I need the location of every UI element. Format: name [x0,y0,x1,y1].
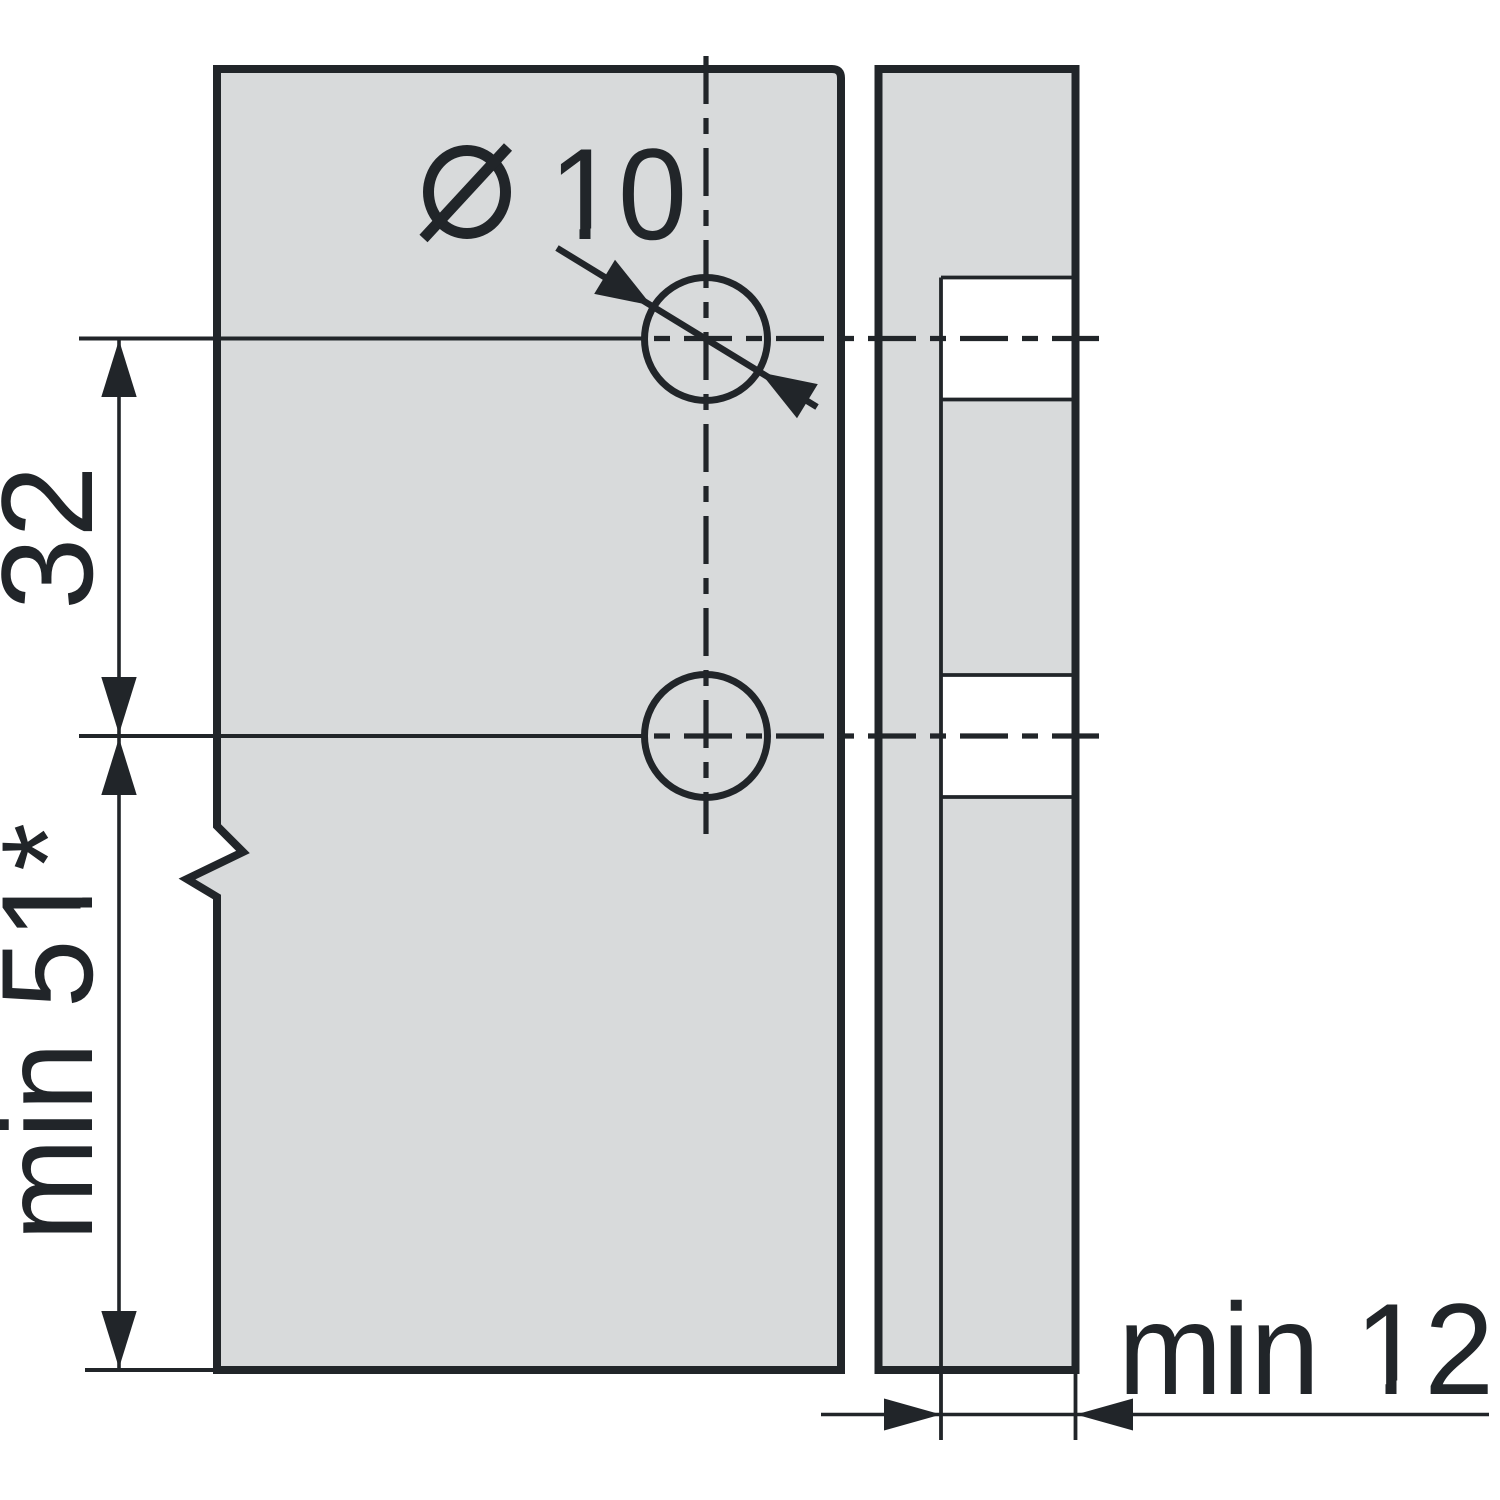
panel front view (gray plate with break line) [187,69,841,1370]
label diameter symbol (drawn) [429,151,506,234]
svg-text:min 51*: min 51* [0,823,120,1241]
panel side view (cross-section slab) [879,69,1076,1370]
drilled hole notch 1 (white cut-out in side view) [941,278,1079,400]
dimension line 32 [117,340,121,734]
centerline horizontal hole 2 [654,733,1099,738]
arrow min12 right [1076,1399,1133,1431]
extension line middle (hole 2 centre) [79,734,644,738]
diameter leader line [557,248,817,407]
dimension line min 51 [117,738,121,1368]
arrow 32 bottom [101,677,136,734]
arrow min51 bottom [101,1311,136,1368]
hole depth line / extension line for min 12 [939,278,943,1441]
serif patches to make digit 1 helvetica-style [555,229,580,242]
arrow min12 left [884,1399,941,1431]
dimension line min 12 [821,1413,1489,1417]
svg-text:32: 32 [0,465,120,610]
leader arrowhead upper-left [594,260,651,306]
hole 1 circle [645,278,768,401]
centerline horizontal hole 1 [654,336,1099,341]
drilled hole notch 2 (white cut-out in side view) [941,675,1079,797]
svg-text:min 12: min 12 [1118,1276,1494,1422]
side view outline [879,69,1076,1370]
svg-text:10: 10 [549,121,687,267]
extension line bottom (panel end) [85,1368,220,1372]
leader arrowhead lower-right [761,373,818,419]
extension line below side view right edge [1074,1374,1078,1440]
centerline vertical through holes [703,56,708,834]
arrow min51 top [101,738,136,795]
arrow 32 top [101,340,136,397]
hole 2 circle [645,675,768,798]
extension line top (hole 1 centre) [79,337,644,341]
